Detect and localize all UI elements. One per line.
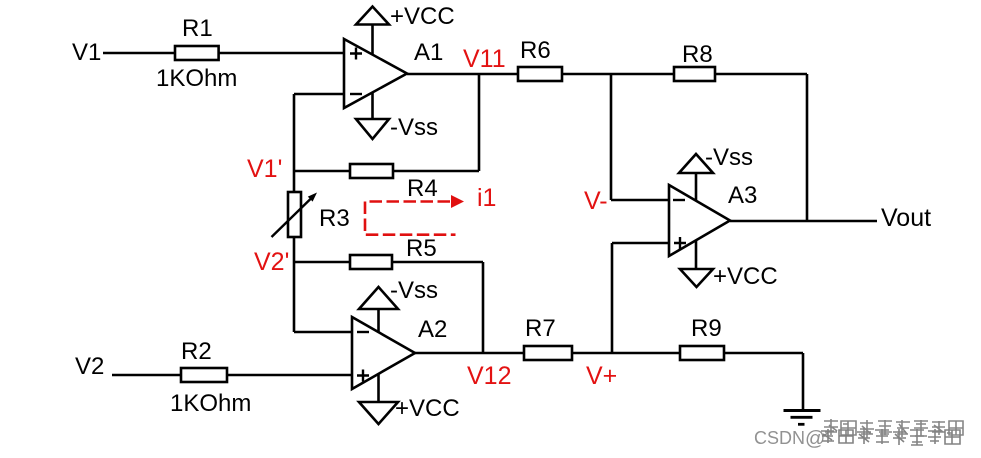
wire ground vertical [802,353,805,409]
power arrow A2 +VCC [359,402,398,424]
wire V+ to A3 plus input [612,242,669,245]
resistor R1 [175,46,219,60]
svg-text:R1: R1 [182,15,213,42]
power arrow A1 -Vss [356,119,389,139]
op-amp A3 plus sign [674,237,686,249]
op-amp A3 minus sign [673,199,685,201]
svg-text:R7: R7 [525,315,556,342]
power arrow A3 -Vss [679,154,713,173]
node label V2' [254,248,289,276]
current loop i1 dashed [365,202,456,235]
resistor R9 [680,346,724,360]
label R7 [525,315,556,342]
node label V- [584,187,608,215]
wire A2 minus input [294,331,352,334]
wire R5 to feedback drop [392,261,483,264]
wire R6 to R8 [562,73,674,76]
label +VCC A3 [713,263,778,290]
svg-text:1KOhm: 1KOhm [156,65,237,92]
label R1 [182,15,213,42]
svg-text:V-: V- [584,187,608,215]
power stem A1 +VCC [371,25,374,57]
ground symbol [784,411,821,425]
potentiometer R3 arrow [272,193,318,238]
resistor R8 [674,67,715,81]
label +VCC A1 [390,3,455,30]
power stem A2 -Vss [377,309,380,334]
svg-text:R9: R9 [691,315,722,342]
wire V1' row to R4 [294,170,350,173]
wire V2 to R2 [112,374,181,377]
op-amp A2 [352,317,415,389]
label V2 [75,353,104,380]
label Vout [881,204,931,232]
label 1KOhm R2 [170,390,251,417]
resistor R5 [350,255,392,269]
label -Vss A1 [390,114,438,141]
wire A1 minus input [294,93,344,96]
watermark pseudo chinese row upper [823,419,963,438]
wire V- to A3 minus input [611,199,669,202]
label +VCC A2 [395,395,460,422]
resistor R7 [524,346,572,360]
op-amp A1 plus sign [350,48,362,60]
power stem A1 -Vss [371,91,374,119]
svg-text:+VCC: +VCC [390,3,455,30]
power stem A3 -Vss [695,173,698,205]
label R5 [406,235,437,262]
svg-text:R6: R6 [520,37,551,64]
svg-text:-Vss: -Vss [390,277,438,304]
node label V1' [247,155,282,183]
resistor R4 [350,164,393,178]
wire V+ vertical [611,243,614,353]
wire V- vertical [610,74,613,200]
svg-text:R5: R5 [406,235,437,262]
svg-text:V1': V1' [247,155,282,183]
wire R2 to A2 plus input [227,374,352,377]
label R4 [407,175,438,202]
power arrow A3 +VCC [680,269,713,287]
svg-text:V1: V1 [72,39,101,66]
op-amp A3 [669,185,730,256]
resistor R2 [181,368,227,382]
wire vertical bus V1' to V2' [293,94,296,332]
label R2 [181,338,212,365]
label A2 [418,316,447,343]
svg-text:A2: A2 [418,316,447,343]
wire R1 to A1 plus input [219,52,344,55]
svg-text:i1: i1 [477,184,496,212]
label 1KOhm R1 [156,65,237,92]
svg-text:V12: V12 [467,362,511,390]
watermark pseudo chinese row lower [821,428,960,445]
node label V11 [463,45,506,73]
node label i1 [477,184,496,212]
wire V11 vertical drop [478,74,481,171]
svg-text:Vout: Vout [881,204,931,232]
power stem A3 +VCC [695,237,698,269]
svg-text:R2: R2 [181,338,212,365]
wire A1 output to R6 [407,73,518,76]
op-amp A2 minus sign [357,331,369,333]
wire V2' row to R5 [294,261,350,264]
wire A2 output to R7 [415,352,524,355]
wire R9 to ground corner [724,352,803,355]
wire V1 to R1 [103,52,175,55]
power stem A2 +VCC [377,373,380,402]
watermark CSDN text [754,428,825,450]
wire R7 to R9 [572,352,680,355]
svg-text:-Vss: -Vss [390,114,438,141]
current arrow i1 head [451,195,464,208]
label R3 [319,205,350,232]
label R6 [520,37,551,64]
op-amp A1 minus sign [350,93,362,95]
label -Vss A3 [705,144,753,171]
wire R5 feedback vertical [482,262,485,353]
svg-text:V2: V2 [75,353,104,380]
power arrow A1 +VCC [356,7,389,25]
resistor R6 [518,67,562,81]
wire A3 output to Vout [730,220,877,223]
label R8 [682,41,713,68]
svg-text:1KOhm: 1KOhm [170,390,251,417]
wire R4 to V11 drop [393,170,479,173]
svg-text:+VCC: +VCC [713,263,778,290]
svg-text:V11: V11 [463,45,506,73]
op-amp A2 plus sign [357,370,369,382]
node label V12 [467,362,511,390]
svg-text:A3: A3 [728,182,757,209]
svg-text:R3: R3 [319,205,350,232]
svg-text:CSDN: CSDN [754,428,805,448]
svg-text:V+: V+ [586,362,617,390]
svg-text:A1: A1 [414,39,443,66]
wire R8 to right corner [715,73,807,76]
label A1 [414,39,443,66]
label A3 [728,182,757,209]
node label V+ [586,362,617,390]
svg-text:+VCC: +VCC [395,395,460,422]
label -Vss A2 [390,277,438,304]
svg-text:V2': V2' [254,248,289,276]
power arrow A2 -Vss [359,287,398,309]
svg-text:R8: R8 [682,41,713,68]
op-amp A1 [344,39,407,108]
svg-text:-Vss: -Vss [705,144,753,171]
svg-text:R4: R4 [407,175,438,202]
label R9 [691,315,722,342]
potentiometer R3 body [288,192,301,237]
label V1 [72,39,101,66]
wire R8 feedback vertical [806,74,809,221]
